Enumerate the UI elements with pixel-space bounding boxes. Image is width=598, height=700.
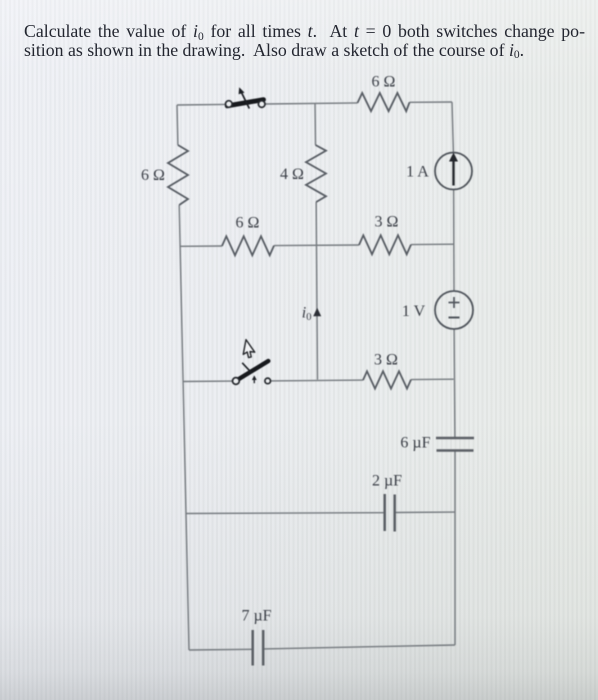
wire right rail segment 4: [454, 451, 456, 646]
switch S1 opening arrow: [239, 87, 250, 108]
wire top rail right segment: [410, 101, 453, 103]
wire switch rail segment C: [411, 378, 454, 380]
svg-text:7 µF: 7 µF: [241, 608, 271, 625]
wire mid rail segment C: [411, 243, 454, 245]
wire right rail segment 2: [453, 190, 455, 292]
svg-text:6 µF: 6 µF: [400, 435, 430, 452]
wire mid rail segment B: [274, 244, 359, 247]
svg-text:6 Ω: 6 Ω: [141, 167, 165, 184]
svg-text:i0: i0: [302, 305, 312, 324]
capacitor 7uF plates: [253, 630, 264, 666]
wire top rail left segment: [177, 103, 225, 106]
wire top rail mid segment: [265, 103, 358, 104]
wire middle vertical upper: [314, 103, 317, 145]
capacitor 6uF plates: [436, 438, 474, 451]
svg-text:1 A: 1 A: [406, 164, 429, 181]
wire middle vertical lower: [316, 202, 317, 380]
resistor 3 ohm lower rail: [363, 371, 411, 388]
svg-text:6 Ω: 6 Ω: [372, 74, 396, 91]
svg-text:2 µF: 2 µF: [372, 473, 402, 490]
wire capacitor rail segment B: [396, 511, 455, 513]
wire right rail segment 1: [452, 102, 453, 153]
wire mid rail segment A: [180, 245, 222, 247]
switch S2 closing arrow: [242, 363, 257, 383]
wire bottom rail segment B: [264, 645, 455, 649]
switch S1 right contact: [258, 101, 265, 108]
resistor 3 ohm middle rail: [359, 235, 411, 254]
current source 1A: [435, 153, 472, 190]
switch S1 left contact: [226, 101, 233, 108]
switch S2 right contact: [265, 378, 271, 384]
resistor 6 ohm middle rail: [222, 236, 274, 255]
wire capacitor rail segment A: [186, 512, 384, 515]
resistor 6 ohm left vertical: [168, 145, 188, 205]
current arrow i0 on middle wire: [313, 308, 321, 316]
wire bottom rail segment A: [189, 648, 252, 651]
switch S2 blade (open, lower rail): [236, 361, 268, 381]
svg-text:3 Ω: 3 Ω: [375, 214, 399, 231]
wire switch rail segment B: [270, 379, 363, 382]
wire switch rail segment A: [183, 380, 233, 382]
wire left rail lower: [179, 205, 189, 650]
svg-text:6 Ω: 6 Ω: [236, 215, 260, 232]
switch S2 left contact: [233, 378, 240, 385]
resistor 6 ohm top: [358, 93, 410, 111]
resistor 4 ohm vertical: [306, 145, 326, 202]
wire right rail segment 3: [453, 329, 456, 438]
capacitor 2uF plates: [385, 494, 395, 532]
switch S1 blade (closed, top rail): [227, 100, 263, 106]
wire left rail upper: [176, 105, 179, 145]
svg-text:4 Ω: 4 Ω: [280, 166, 304, 183]
svg-text:3 Ω: 3 Ω: [374, 352, 398, 369]
voltage source 1V: [435, 291, 473, 329]
mouse cursor icon: [242, 340, 256, 359]
svg-text:1 V: 1 V: [402, 303, 426, 320]
